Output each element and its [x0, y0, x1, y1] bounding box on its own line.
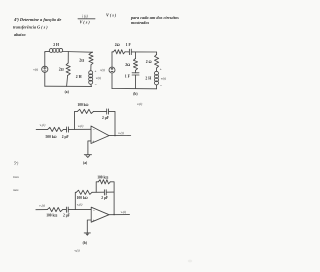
wire: (a) right vertical top — [91, 51, 93, 54]
svg-text:vₗ(t): vₗ(t) — [96, 76, 101, 80]
wire: U2 plus input to ground — [87, 220, 91, 233]
wire: outer loop right side — [110, 182, 114, 215]
voltage source V1 — [42, 66, 48, 72]
svg-text:2 H: 2 H — [145, 77, 151, 81]
inductor L1 2H coil — [49, 48, 62, 52]
wire: U2 output — [109, 214, 130, 216]
resistor R6 500k input — [48, 127, 64, 131]
resistor R4 2ohm middle branch — [133, 59, 137, 71]
svg-text:tran: tran — [13, 175, 19, 179]
wire: (a) right branch middle — [90, 65, 92, 71]
svg-text:+: + — [93, 218, 95, 222]
capacitor C2 1F middle branch — [132, 73, 139, 75]
svg-text:2 Ω: 2 Ω — [146, 60, 152, 64]
faint smudge bottom right — [188, 260, 192, 263]
svg-text:1 F: 1 F — [126, 43, 132, 47]
wire: outer loop left riser — [96, 182, 98, 192]
svg-text:vₐ(t): vₐ(t) — [78, 124, 84, 128]
svg-text:vₒ(t): vₒ(t) — [121, 210, 127, 214]
svg-text:abaixo: abaixo — [14, 32, 26, 37]
op-amp U2 triangle — [91, 207, 109, 222]
wire: top between R3 and C1 — [125, 51, 129, 53]
wire: (b) left vertical below source — [111, 73, 113, 89]
svg-text:2 H: 2 H — [53, 43, 59, 47]
ground op1 — [84, 155, 91, 158]
svg-text:2 H: 2 H — [76, 75, 82, 79]
svg-text:100 kΩ: 100 kΩ — [46, 213, 57, 217]
wire: (b) middle branch upper — [135, 52, 137, 59]
wire: (a) middle branch lower — [67, 76, 68, 87]
junction dot feedback-output U2 — [113, 214, 114, 215]
wire: between R7 and C4 — [94, 110, 107, 112]
wire: (b) right branch middle — [156, 68, 158, 71]
wire: (a) right branch bottom — [90, 84, 93, 86]
inductor L2 2H right branch coil — [89, 71, 93, 85]
wire: (a) bottom — [45, 85, 92, 87]
wire: (b) right vertical top — [156, 52, 158, 55]
svg-text:−: − — [93, 128, 95, 132]
svg-text:2Ω: 2Ω — [115, 43, 120, 47]
svg-text:v.(t): v.(t) — [137, 102, 143, 106]
svg-text:2 μF: 2 μF — [62, 135, 70, 139]
svg-text:2Ω: 2Ω — [125, 63, 130, 67]
svg-text:transferência G ( s ): transferência G ( s ) — [13, 24, 48, 29]
wire: (b) bottom — [112, 88, 157, 90]
wire: between R4 and C2 — [135, 70, 137, 72]
svg-text:mos: mos — [13, 188, 19, 192]
wire: op2 feedback left riser — [75, 192, 76, 209]
fraction bar — [78, 18, 95, 20]
svg-text:v(t): v(t) — [100, 68, 105, 72]
svg-text:500 kΩ: 500 kΩ — [46, 135, 57, 139]
ground op2 — [84, 233, 90, 236]
op-amp U1 triangle — [91, 126, 109, 144]
wire: (a) left vertical above source — [44, 53, 46, 67]
svg-text:+: + — [92, 139, 94, 143]
wire: U1 plus input to ground — [88, 141, 91, 155]
svg-text:100 kΩ: 100 kΩ — [77, 196, 88, 200]
svg-text:v₁(t): v₁(t) — [40, 123, 46, 127]
wire: (b) top left corner — [112, 51, 114, 54]
wire: op2 input to inverting pin — [68, 209, 91, 211]
junction dot feedback-output — [114, 135, 115, 136]
resistor R7 100k feedback — [77, 109, 93, 113]
capacitor C6 2uF feedback — [104, 190, 106, 195]
svg-text:−: − — [95, 83, 97, 87]
wire: op1 feedback left riser — [75, 111, 78, 129]
svg-text:v₁(t): v₁(t) — [39, 204, 45, 208]
wire: C6 to right riser — [106, 191, 114, 193]
wire: op2 input lead — [36, 209, 47, 211]
svg-text:−: − — [93, 208, 95, 212]
wire: between R8 and C5 — [63, 209, 67, 211]
voltage source V2 — [109, 67, 115, 73]
svg-text:100 kΩ: 100 kΩ — [97, 176, 108, 180]
resistor R10 100k outer parallel — [98, 180, 110, 184]
svg-text:2Ω: 2Ω — [59, 68, 64, 72]
capacitor C5 2uF input — [66, 207, 68, 212]
svg-text:5ª): 5ª) — [14, 162, 19, 166]
svg-text:2 μF: 2 μF — [101, 196, 109, 200]
svg-text:v.(t): v.(t) — [75, 249, 80, 253]
svg-text:mostrados: mostrados — [131, 20, 149, 25]
wire: (a) middle branch upper — [67, 52, 69, 63]
svg-text:2 μF: 2 μF — [102, 116, 110, 120]
wire: (a) left vertical below source — [44, 72, 46, 86]
wire: (a) top left segment — [45, 52, 50, 53]
resistor R5 2ohm right branch — [155, 55, 159, 69]
wire: op1 input to inverting pin — [69, 128, 91, 130]
svg-text:2 μF: 2 μF — [63, 213, 71, 217]
capacitor C1 1F top — [129, 49, 131, 54]
wire: (b) top right segment — [132, 51, 157, 53]
wire: (b) middle branch lower — [135, 75, 137, 89]
wire: (a) top right segment — [63, 51, 93, 54]
svg-text:2Ω: 2Ω — [79, 58, 84, 62]
svg-text:vₐ(t): vₐ(t) — [77, 202, 83, 206]
resistor R9 100k feedback series — [76, 190, 92, 194]
wire: op1 input lead — [36, 128, 48, 130]
svg-text:100 kΩ: 100 kΩ — [77, 103, 88, 107]
resistor R1 2ohm middle branch — [66, 63, 70, 76]
svg-text:+: + — [160, 67, 162, 71]
wire: between R6 and C3 — [63, 128, 66, 130]
wire: (b) right branch bottom — [156, 85, 158, 89]
resistor R2 2ohm right branch — [89, 53, 93, 65]
inductor L3 2H right branch coil — [155, 71, 159, 85]
svg-text:−: − — [160, 84, 162, 88]
capacitor C3 2uF input — [67, 127, 69, 132]
wire: R9 to parallel section — [92, 191, 104, 193]
resistor R8 100k input — [47, 208, 62, 212]
wire: op1 feedback right riser — [109, 111, 115, 135]
svg-text:vₗ(t): vₗ(t) — [161, 77, 166, 81]
wire: (b) left vertical above source — [111, 52, 113, 67]
svg-text:4ª) Determine a função de: 4ª) Determine a função de — [13, 17, 61, 22]
capacitor C4 2uF feedback — [107, 109, 109, 114]
svg-text:V ( s ): V ( s ) — [80, 20, 91, 25]
svg-text:vₒ(t): vₒ(t) — [118, 131, 124, 135]
svg-text:1 F: 1 F — [125, 75, 131, 79]
svg-text:+: + — [95, 69, 97, 73]
svg-text:V ( s ): V ( s ) — [106, 13, 117, 18]
wire: U1 output — [109, 135, 131, 137]
resistor R3 2ohm top — [114, 50, 126, 54]
svg-text:i (s): i (s) — [82, 15, 88, 19]
